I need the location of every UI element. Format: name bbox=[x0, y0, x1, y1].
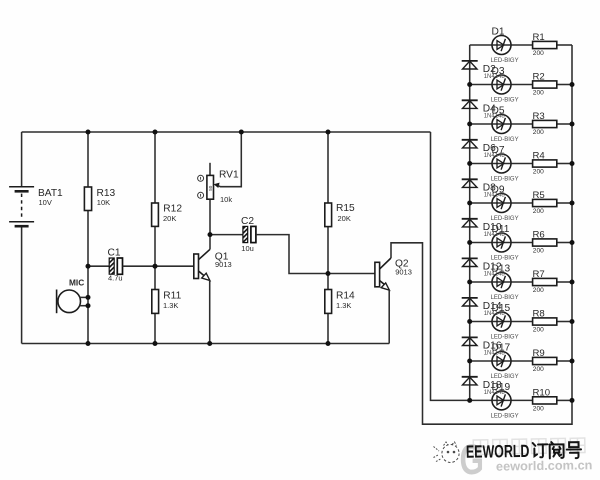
diode D14 1N4148 bbox=[462, 298, 506, 317]
LED D1 LED-BIGY bbox=[491, 26, 519, 64]
svg-text:200: 200 bbox=[533, 50, 544, 57]
LED D11 LED-BIGY bbox=[491, 224, 519, 262]
svg-text:1N4148: 1N4148 bbox=[484, 74, 506, 80]
svg-text:200: 200 bbox=[533, 327, 544, 334]
wire C2 to Q2 base node bbox=[256, 235, 328, 274]
resistor R3 200 bbox=[533, 111, 557, 136]
wire LED row 8 bbox=[470, 321, 532, 323]
node LED left rail row 4 bbox=[467, 161, 472, 166]
svg-text:R14: R14 bbox=[336, 291, 355, 302]
node LED left rail row 8 bbox=[467, 319, 472, 324]
wire Q1 collector bbox=[209, 199, 211, 249]
battery BAT1 10V bbox=[9, 187, 63, 226]
wire C2 input bbox=[210, 234, 243, 236]
node top rail / R13 bbox=[86, 130, 91, 135]
node LED left rail row 6 bbox=[467, 240, 472, 245]
wire R13 branch bbox=[87, 132, 89, 187]
LED D17 LED-BIGY bbox=[491, 342, 519, 380]
svg-text:1.3K: 1.3K bbox=[163, 301, 178, 310]
svg-text:R7: R7 bbox=[533, 269, 545, 280]
wire bottom ground rail bbox=[22, 343, 390, 345]
LED D19 LED-BIGY bbox=[491, 382, 519, 420]
resistor R13 10K bbox=[84, 187, 115, 211]
svg-text:R3: R3 bbox=[533, 111, 545, 122]
wire LED row 6 bbox=[470, 242, 532, 244]
svg-text:1N4148: 1N4148 bbox=[484, 311, 506, 317]
wire Q2 base bbox=[328, 273, 375, 275]
diode D10 1N4148 bbox=[462, 219, 506, 238]
wire LED row 2 bbox=[470, 84, 532, 86]
svg-text:20K: 20K bbox=[163, 214, 176, 223]
svg-text:10K: 10K bbox=[97, 198, 110, 207]
node C2 tap / Q1 collector bbox=[208, 232, 213, 237]
node bottom rail / R14 bbox=[326, 341, 331, 346]
wire LED row 1 bbox=[470, 44, 532, 46]
wire left rail upper segment bbox=[21, 132, 23, 187]
node Q1 base / R12-R11 bbox=[153, 264, 158, 269]
resistor R6 200 bbox=[533, 230, 557, 255]
svg-text:C1: C1 bbox=[108, 248, 121, 259]
wire C1 to base node bbox=[123, 265, 155, 267]
node bottom rail / mic branch bbox=[86, 341, 91, 346]
resistor R15 20K bbox=[325, 203, 355, 227]
node LED left rail row 5 bbox=[467, 201, 472, 206]
resistor R8 200 bbox=[533, 309, 557, 334]
resistor R1 200 bbox=[533, 32, 557, 57]
potentiometer RV1 10k bbox=[198, 163, 239, 204]
svg-text:200: 200 bbox=[533, 208, 544, 215]
capacitor C2 10u bbox=[241, 216, 256, 253]
node bottom rail / R11 bbox=[153, 341, 158, 346]
wire LED row 3 bbox=[470, 123, 532, 125]
wire R15/R14 branch bbox=[327, 132, 329, 203]
svg-text:10u: 10u bbox=[241, 244, 254, 253]
transistor Q2 9013 bbox=[375, 258, 412, 290]
diode D6 1N4148 bbox=[462, 140, 506, 159]
svg-text:20K: 20K bbox=[338, 214, 351, 223]
node C1 left bbox=[86, 264, 91, 269]
svg-text:50: 50 bbox=[208, 185, 213, 191]
svg-text:R4: R4 bbox=[533, 151, 546, 162]
svg-text:MIC: MIC bbox=[69, 277, 84, 287]
wire LED row 10 bbox=[470, 399, 532, 401]
svg-text:9013: 9013 bbox=[395, 267, 412, 276]
resistor R7 200 bbox=[533, 269, 557, 294]
svg-text:1N4148: 1N4148 bbox=[484, 272, 506, 278]
svg-text:200: 200 bbox=[533, 366, 544, 373]
node LED right rail row 2 bbox=[570, 82, 575, 87]
svg-text:1N4148: 1N4148 bbox=[484, 351, 506, 357]
node top rail / R12 bbox=[153, 130, 158, 135]
node LED right rail row 4 bbox=[570, 161, 575, 166]
svg-text:R15: R15 bbox=[336, 203, 355, 214]
LED D7 LED-BIGY bbox=[491, 145, 519, 183]
svg-text:RV1: RV1 bbox=[219, 170, 239, 181]
diode D8 1N4148 bbox=[462, 179, 506, 198]
wire RV1 wiper to top rail bbox=[218, 132, 242, 187]
LED ladder left rail bbox=[469, 45, 471, 400]
svg-text:4.7u: 4.7u bbox=[108, 274, 123, 283]
watermark sketch logo bbox=[434, 442, 460, 463]
node Q2 base / R15-R14 bbox=[326, 271, 331, 276]
svg-text:LED-BIGY: LED-BIGY bbox=[491, 414, 519, 420]
resistor R11 1.3K bbox=[152, 290, 182, 314]
node LED left rail row 9 bbox=[467, 359, 472, 364]
svg-text:R11: R11 bbox=[163, 290, 181, 301]
svg-text:1N4148: 1N4148 bbox=[484, 193, 506, 199]
svg-text:R12: R12 bbox=[163, 204, 182, 215]
svg-text:R2: R2 bbox=[533, 72, 545, 83]
svg-text:200: 200 bbox=[533, 169, 544, 176]
node bottom rail / Q1 emitter bbox=[207, 341, 212, 346]
svg-text:200: 200 bbox=[533, 287, 544, 294]
diode D12 1N4148 bbox=[462, 258, 506, 277]
wire LED row 7 bbox=[470, 281, 532, 283]
microphone MIC bbox=[57, 277, 88, 313]
svg-text:200: 200 bbox=[533, 90, 544, 97]
resistor R4 200 bbox=[533, 151, 557, 176]
svg-text:1N4148: 1N4148 bbox=[484, 390, 506, 396]
LED D15 LED-BIGY bbox=[491, 303, 519, 341]
svg-text:R6: R6 bbox=[533, 230, 545, 241]
wire LED row 9 bbox=[470, 360, 532, 362]
svg-text:R1: R1 bbox=[533, 32, 545, 43]
transistor Q1 9013 bbox=[194, 249, 232, 280]
node LED right rail row 6 bbox=[570, 240, 575, 245]
node LED right rail row 9 bbox=[570, 359, 575, 364]
node LED left rail row 2 bbox=[467, 82, 472, 87]
node LED left rail row 10 bbox=[467, 398, 472, 403]
wire C1 input bbox=[88, 265, 109, 267]
svg-text:10k: 10k bbox=[220, 195, 232, 204]
resistor R9 200 bbox=[533, 348, 557, 373]
svg-text:R10: R10 bbox=[533, 388, 551, 399]
wire top power rail bbox=[22, 131, 431, 133]
diode D2 1N4148 bbox=[462, 61, 506, 80]
diode D16 1N4148 bbox=[462, 337, 506, 356]
resistor R10 200 bbox=[533, 388, 557, 413]
watermark faint grey site text bbox=[473, 438, 585, 454]
svg-text:200: 200 bbox=[533, 129, 544, 136]
svg-text:R8: R8 bbox=[533, 309, 545, 320]
LED D13 LED-BIGY bbox=[491, 263, 519, 301]
node MIC lead 1 bbox=[86, 295, 91, 300]
LED D5 LED-BIGY bbox=[491, 105, 519, 143]
LED D3 LED-BIGY bbox=[491, 66, 519, 104]
node top rail / RV1 wiper bbox=[239, 130, 244, 135]
resistor R12 20K bbox=[152, 203, 183, 226]
svg-text:200: 200 bbox=[533, 405, 544, 412]
wire LED row 4 bbox=[470, 163, 532, 165]
svg-text:1N4148: 1N4148 bbox=[484, 153, 506, 159]
svg-text:1N4148: 1N4148 bbox=[484, 232, 506, 238]
node top rail / R15 bbox=[326, 130, 331, 135]
node LED right rail row 7 bbox=[570, 280, 575, 285]
svg-text:1N4148: 1N4148 bbox=[484, 114, 506, 120]
watermark EEWORLD text bbox=[466, 440, 581, 462]
wire Q2 collector to LED right rail bbox=[391, 45, 572, 424]
LED D9 LED-BIGY bbox=[491, 184, 519, 222]
resistor R14 1.3K bbox=[325, 290, 355, 314]
node LED left rail row 3 bbox=[467, 122, 472, 127]
node LED right rail row 8 bbox=[570, 319, 575, 324]
resistor R5 200 bbox=[533, 190, 557, 215]
diode D18 1N4148 bbox=[462, 377, 506, 396]
node LED right rail row 5 bbox=[570, 201, 575, 206]
node MIC lead 2 bbox=[86, 303, 91, 308]
svg-text:200: 200 bbox=[533, 248, 544, 255]
node LED right rail row 3 bbox=[570, 122, 575, 127]
resistor R2 200 bbox=[533, 72, 557, 97]
wire LED row 5 bbox=[470, 202, 532, 204]
wire Q1 emitter bbox=[209, 280, 211, 343]
svg-text:9013: 9013 bbox=[215, 260, 232, 269]
wire Q1 base bbox=[155, 265, 194, 267]
node LED left rail row 7 bbox=[467, 280, 472, 285]
wire top-rail drop to LED chain bottom bbox=[431, 132, 470, 400]
svg-text:R5: R5 bbox=[533, 190, 545, 201]
node LED right rail row 10 bbox=[570, 398, 575, 403]
svg-text:R9: R9 bbox=[533, 348, 545, 359]
wire R12/R11 branch bbox=[154, 132, 156, 203]
wire Q2 emitter bbox=[388, 290, 390, 344]
svg-text:eeworld.com.cn: eeworld.com.cn bbox=[496, 458, 593, 473]
wire left rail lower segment bbox=[21, 226, 23, 343]
capacitor C1 4.7u bbox=[108, 248, 123, 283]
svg-text:C2: C2 bbox=[241, 216, 254, 227]
diode D4 1N4148 bbox=[462, 100, 506, 119]
svg-text:1.3K: 1.3K bbox=[336, 301, 351, 310]
svg-text:10V: 10V bbox=[39, 198, 52, 207]
